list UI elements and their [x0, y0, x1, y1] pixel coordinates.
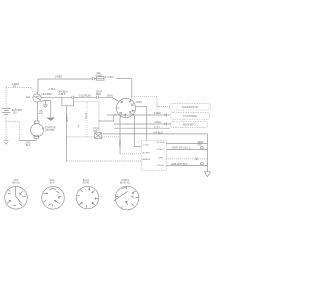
svg-text:SOLENOID: SOLENOID	[79, 95, 92, 98]
svg-text:MAGNETO: MAGNETO	[183, 124, 196, 127]
svg-text:A-BLK: A-BLK	[49, 88, 56, 91]
svg-text:40A: 40A	[26, 96, 31, 99]
svg-text:B+S: B+S	[50, 182, 55, 185]
svg-text:BRN: BRN	[108, 95, 113, 98]
svg-text:(RUN): (RUN)	[83, 182, 90, 185]
svg-text:RD-BL: RD-BL	[158, 165, 165, 167]
svg-text:(B+A1): (B+A1)	[12, 182, 20, 185]
svg-text:4+4 BLK: 4+4 BLK	[105, 76, 115, 79]
svg-text:B-BLK: B-BLK	[158, 149, 165, 151]
svg-text:LINK/BLK: LINK/BLK	[42, 93, 53, 96]
svg-text:A-GRN: A-GRN	[143, 151, 150, 154]
svg-text:BLK: BLK	[26, 144, 31, 147]
svg-text:3-RED: 3-RED	[154, 112, 161, 115]
svg-text:TO ENGINE: TO ENGINE	[183, 115, 197, 118]
svg-text:(B+S+A1): (B+S+A1)	[120, 182, 131, 185]
svg-text:A-GRN: A-GRN	[65, 114, 68, 122]
svg-text:4-BLK: 4-BLK	[154, 121, 161, 124]
svg-text:IN GRN: IN GRN	[157, 142, 165, 144]
svg-text:4+4 BLK: 4+4 BLK	[153, 131, 163, 134]
svg-text:C-BLK: C-BLK	[118, 140, 120, 147]
svg-text:C-YEL: C-YEL	[143, 145, 150, 147]
svg-text:SEAT SW (N.O.): SEAT SW (N.O.)	[172, 147, 190, 150]
svg-text:FUSE: FUSE	[96, 74, 103, 77]
svg-text:B-YEL: B-YEL	[84, 113, 86, 120]
svg-text:AMB-WHT BLK: AMB-WHT BLK	[171, 163, 188, 166]
svg-text:AMBER: AMBER	[143, 158, 151, 161]
svg-text:3-RED: 3-RED	[55, 76, 62, 79]
svg-text:A-BLK: A-BLK	[59, 93, 66, 96]
svg-text:SOLENOID S1: SOLENOID S1	[182, 106, 199, 109]
svg-text:4-YEL: 4-YEL	[154, 127, 161, 129]
svg-text:BRN: BRN	[137, 101, 142, 104]
svg-text:BRN: BRN	[39, 113, 44, 115]
svg-text:BRN: BRN	[96, 93, 101, 96]
svg-text:MOTOR: MOTOR	[46, 129, 55, 132]
svg-text:GRN: GRN	[158, 158, 163, 160]
svg-text:12V: 12V	[13, 112, 18, 115]
